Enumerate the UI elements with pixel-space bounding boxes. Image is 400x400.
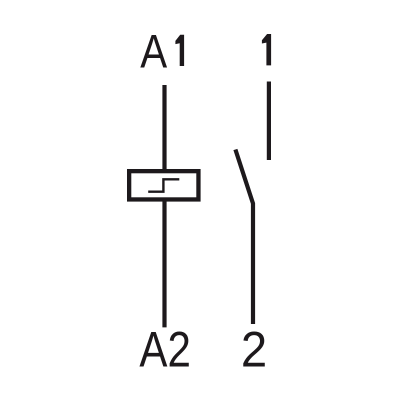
svg-text:2: 2: [241, 322, 267, 378]
svg-text:A: A: [140, 25, 167, 78]
svg-text:A2: A2: [139, 322, 191, 378]
